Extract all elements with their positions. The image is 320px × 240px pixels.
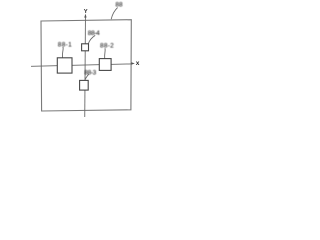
svg-text:88-3: 88-3 (84, 70, 96, 77)
svg-text:x: x (136, 60, 140, 67)
svg-text:88: 88 (115, 2, 123, 9)
svg-text:Y: Y (84, 9, 88, 15)
svg-text:88-4: 88-4 (88, 30, 100, 37)
svg-text:88-1: 88-1 (58, 41, 72, 48)
svg-text:88-2: 88-2 (100, 43, 114, 50)
